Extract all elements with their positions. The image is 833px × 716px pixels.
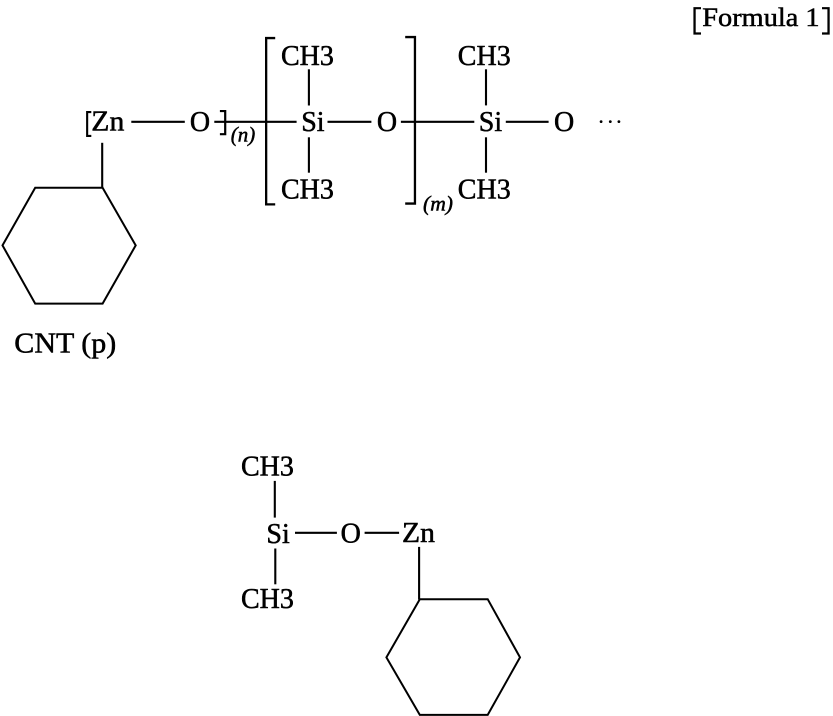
- svg-text:CNT (p): CNT (p): [14, 328, 116, 360]
- polymer open bracket [ before Zn: [86, 111, 91, 137]
- svg-text:(m): (m): [423, 191, 453, 215]
- bond Si1-O2: [328, 121, 372, 123]
- svg-text:Si: Si: [266, 519, 290, 550]
- svg-text:CH3: CH3: [458, 41, 511, 72]
- bond CH3-Si2 (vertical): [485, 69, 487, 105]
- formula label bracket right: [822, 7, 830, 34]
- svg-text:CH3: CH3: [281, 174, 334, 205]
- ellipsis dot 2: [609, 120, 612, 123]
- svg-text:CH3: CH3: [241, 584, 294, 615]
- svg-text:CH3: CH3: [241, 452, 294, 483]
- svg-text:CH3: CH3: [281, 41, 334, 72]
- bond O1 to repeat unit (passes under small bracket): [214, 121, 296, 123]
- bond Zn2-cyclohexyl ring (vertical): [418, 547, 420, 600]
- bond Si2-O3: [506, 121, 549, 123]
- bond O2 to Si2 (passes under big close bracket): [401, 121, 474, 123]
- svg-text:O: O: [341, 519, 361, 550]
- bond Si3-O4: [295, 532, 337, 534]
- bond Si2-CH3 bottom (vertical): [485, 137, 487, 172]
- svg-text:CH3: CH3: [458, 174, 511, 205]
- svg-text:O: O: [377, 107, 397, 138]
- bond CH3-Si1 (vertical): [308, 69, 310, 105]
- svg-text:O: O: [190, 107, 210, 138]
- bond Zn-O1: [131, 121, 185, 123]
- bond Si3-CH3 bottom (vertical): [274, 549, 276, 585]
- svg-text:Zn: Zn: [402, 518, 435, 549]
- cyclohexane ring (top structure): [3, 188, 136, 304]
- ellipsis dot 1: [600, 120, 603, 123]
- svg-text:Si: Si: [479, 107, 503, 138]
- big close bracket ] of siloxane repeat unit: [405, 36, 416, 205]
- svg-text:Si: Si: [301, 107, 325, 138]
- big open bracket [ of siloxane repeat unit: [265, 37, 275, 206]
- bond CH3-Si3 (vertical): [274, 481, 276, 518]
- bond Si1-CH3 bottom (vertical): [308, 137, 310, 172]
- svg-text:Zn: Zn: [91, 107, 124, 138]
- bond Zn-cyclohexyl ring (vertical): [101, 143, 103, 189]
- svg-text:Formula 1: Formula 1: [702, 3, 819, 32]
- svg-text:O: O: [554, 107, 574, 138]
- cyclohexane ring (bottom structure): [386, 599, 520, 715]
- svg-text:(n): (n): [231, 123, 256, 147]
- repeat close bracket ] for (n): [220, 110, 226, 135]
- bond O4-Zn2: [365, 532, 400, 534]
- formula label bracket left: [693, 7, 701, 34]
- ellipsis dot 3: [618, 120, 621, 123]
